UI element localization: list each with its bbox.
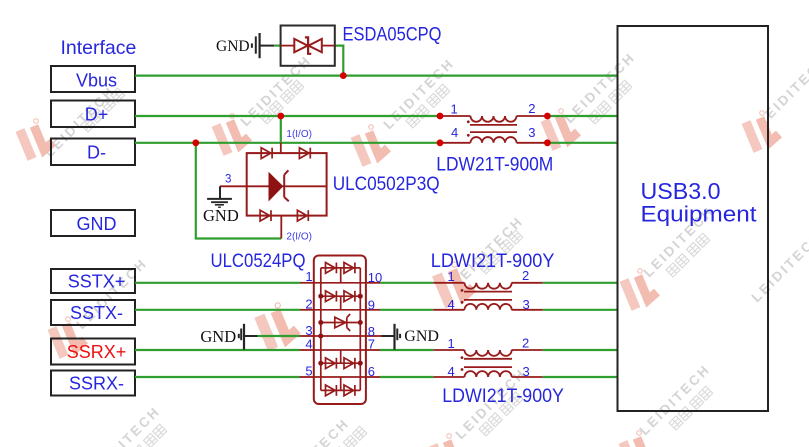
- svg-text:GND: GND: [77, 214, 117, 234]
- wire SSRX+ right: [543, 349, 618, 351]
- svg-text:3: 3: [528, 125, 535, 140]
- wire SSTX- left: [135, 309, 300, 311]
- svg-text:10: 10: [368, 270, 382, 285]
- svg-text:SSRX+: SSRX+: [67, 342, 127, 362]
- svg-text:GND: GND: [404, 328, 439, 345]
- pin 4 stub left: [300, 349, 314, 351]
- svg-text:ULC0502P3Q: ULC0502P3Q: [333, 173, 440, 195]
- pin 2 stub of ULC0502P3Q: [280, 216, 282, 239]
- wire SSTX+ left: [135, 282, 300, 284]
- wire D- net left: [135, 142, 440, 144]
- svg-text:1: 1: [451, 102, 458, 117]
- pin 10 stub right: [366, 282, 380, 284]
- wire ULC0524 pin9 to choke: [380, 309, 433, 311]
- junction choke LDW21T pin2: [544, 113, 551, 120]
- GND port box: [51, 210, 135, 236]
- common mode choke LDW21T-900M: [440, 116, 547, 143]
- svg-text:3: 3: [523, 364, 530, 379]
- svg-text:3: 3: [523, 297, 530, 312]
- svg-text:4: 4: [451, 125, 458, 140]
- svg-text:5: 5: [305, 363, 312, 378]
- svg-text:2: 2: [528, 101, 535, 116]
- svg-text:7: 7: [368, 337, 375, 352]
- SSRX- port box: [51, 371, 135, 396]
- svg-text:9: 9: [368, 297, 375, 312]
- svg-text:1: 1: [305, 269, 312, 284]
- svg-text:LDWI21T-900Y: LDWI21T-900Y: [442, 385, 564, 407]
- ground GND of ESDA05CPQ: [216, 33, 260, 58]
- svg-text:6: 6: [368, 364, 375, 379]
- pin 5 stub left: [300, 376, 314, 378]
- wire SSRX- left: [135, 376, 300, 378]
- Vbus port box: [51, 66, 135, 92]
- svg-text:ESDA05CPQ: ESDA05CPQ: [343, 23, 442, 45]
- svg-text:SSTX+: SSTX+: [68, 271, 126, 291]
- svg-text:GND: GND: [200, 327, 236, 346]
- D+ port box: [51, 101, 135, 128]
- wire SSTX- right: [543, 309, 618, 311]
- pin 3 stub left: [300, 335, 314, 337]
- wire SSRX- right: [543, 376, 618, 378]
- wire GND to ULC0524 pin3: [258, 335, 300, 337]
- svg-text:D-: D-: [87, 143, 106, 163]
- wire ESDA output drop to Vbus: [335, 46, 344, 76]
- svg-text:4: 4: [448, 364, 455, 379]
- pin 9 stub right: [366, 309, 380, 311]
- svg-text:LDWI21T-900Y: LDWI21T-900Y: [431, 250, 555, 272]
- svg-text:SSRX-: SSRX-: [69, 373, 124, 393]
- svg-text:GND: GND: [216, 38, 250, 55]
- svg-text:2: 2: [305, 296, 312, 311]
- pin 1 stub of ULC0502P3Q: [280, 143, 282, 153]
- pin 1 stub left: [300, 282, 314, 284]
- wire ULC0524 pin10 to choke: [380, 282, 433, 284]
- svg-text:1: 1: [448, 336, 455, 351]
- pin 6 stub right: [366, 376, 380, 378]
- pin 3 wire of ULC0502P3Q: [220, 185, 247, 187]
- ground GND right of ULC0524PQ: [382, 324, 439, 350]
- wire Vbus net: [135, 74, 618, 76]
- svg-text:2(I/O): 2(I/O): [286, 231, 312, 242]
- wire D- net right: [547, 142, 617, 144]
- USB3.0 Equipment box: [618, 26, 769, 411]
- TVS diode ESDA05CPQ: [281, 26, 335, 66]
- wire ULC0524 pin7 to choke: [380, 349, 433, 351]
- wire D+ net left: [135, 115, 440, 117]
- pin 2 stub left: [300, 309, 314, 311]
- junction choke LDW21T pin3: [544, 139, 551, 146]
- junction on D+ at ULC0502 tap: [277, 113, 284, 120]
- wire GND to ESDA05CPQ: [260, 45, 275, 47]
- svg-text:D+: D+: [85, 105, 109, 125]
- pin 7 stub right: [366, 349, 380, 351]
- wire SSTX+ right: [543, 282, 618, 284]
- svg-text:GND: GND: [203, 206, 239, 225]
- svg-text:ULC0524PQ: ULC0524PQ: [211, 250, 306, 272]
- ground GND left of ULC0524PQ: [200, 324, 257, 350]
- svg-text:USB3.0: USB3.0: [641, 178, 721, 204]
- wire green stub into ESDA box: [274, 44, 281, 46]
- SSTX- port box: [51, 300, 135, 325]
- svg-text:1(I/O): 1(I/O): [286, 129, 312, 140]
- common mode choke LDWI21T-900Y upper: [433, 283, 542, 310]
- ground GND of ULC0502P3Q: [203, 186, 239, 225]
- svg-text:4: 4: [305, 336, 312, 351]
- svg-text:2: 2: [522, 335, 529, 350]
- svg-text:Vbus: Vbus: [76, 70, 117, 90]
- pin 8 stub right: [366, 335, 382, 337]
- junction choke LDW21T pin4: [437, 139, 444, 146]
- common mode choke LDWI21T-900Y lower: [433, 350, 542, 377]
- wire SSRX+ left: [135, 349, 300, 351]
- junction on D- at ULC0502 tap: [192, 139, 199, 146]
- SSRX+ port box: [51, 339, 135, 365]
- svg-text:Interface: Interface: [61, 37, 137, 59]
- svg-text:SSTX-: SSTX-: [70, 303, 123, 323]
- wire ULC0524 pin6 to choke: [380, 376, 433, 378]
- junction choke LDW21T pin1: [437, 113, 444, 120]
- svg-text:Equipment: Equipment: [641, 202, 758, 227]
- wire D+ tap down to ULC0502 pin1: [280, 116, 282, 143]
- svg-text:3: 3: [225, 174, 231, 186]
- svg-text:LDW21T-900M: LDW21T-900M: [436, 154, 553, 176]
- TVS array ULC0524PQ: [314, 256, 366, 405]
- junction on Vbus at ESDA drop: [340, 72, 347, 79]
- SSTX+ port box: [51, 269, 135, 293]
- TVS array ULC0502P3Q: [247, 148, 327, 221]
- wire D+ net right: [547, 115, 617, 117]
- wire D- tap loop to ULC0502 pin2: [196, 143, 281, 239]
- D- port box: [51, 139, 135, 166]
- svg-text:4: 4: [448, 297, 455, 312]
